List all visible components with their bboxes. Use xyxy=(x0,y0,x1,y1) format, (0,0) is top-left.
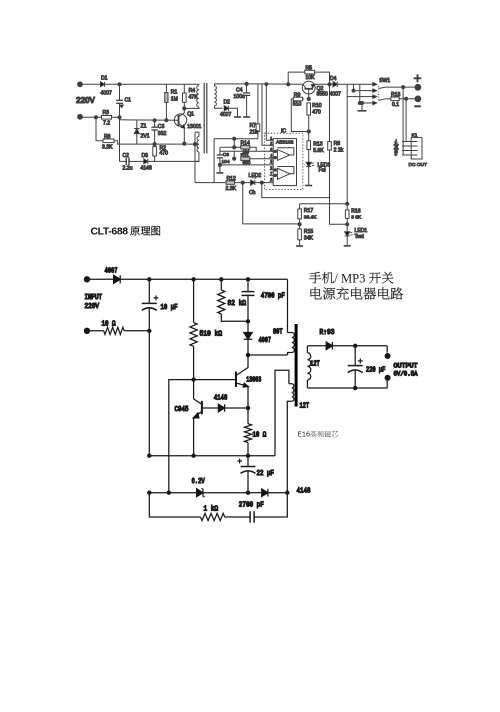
wire right side + terminal xyxy=(386,346,388,353)
wire bottom rail xyxy=(120,160,127,162)
resistor R4 xyxy=(183,84,185,93)
wire to + terminal xyxy=(386,86,416,88)
svg-text:Ful: Ful xyxy=(319,168,326,174)
svg-text:D1: D1 xyxy=(101,76,108,82)
svg-text:21k: 21k xyxy=(250,129,259,135)
wire D4 to switch xyxy=(337,83,353,85)
switch contact arrows xyxy=(373,83,377,86)
svg-text:12T: 12T xyxy=(310,360,320,368)
node R3/C1 junction xyxy=(118,116,121,119)
svg-text:4148: 4148 xyxy=(214,394,228,402)
op-amp IC U1 AE3102 outer dashed box xyxy=(265,133,303,189)
svg-text:R1: R1 xyxy=(171,90,178,96)
svg-text:2.2u: 2.2u xyxy=(123,166,133,172)
capacitor 22uF xyxy=(247,456,249,467)
diode D2 xyxy=(224,106,228,111)
node xyxy=(286,491,289,494)
svg-text:6V/0.5A: 6V/0.5A xyxy=(394,371,418,378)
wire zener column corner xyxy=(169,380,194,493)
resistor R13 xyxy=(307,141,311,150)
node 220uF top xyxy=(354,344,357,347)
ground after D2 xyxy=(228,108,237,117)
svg-text:LED2: LED2 xyxy=(249,173,262,179)
svg-text:2: 2 xyxy=(270,142,272,146)
svg-text:CLT-688: CLT-688 xyxy=(91,227,129,238)
svg-text:4: 4 xyxy=(270,154,272,158)
wire left column down xyxy=(148,331,150,456)
svg-text:R10: R10 xyxy=(312,103,322,109)
svg-text:22 μF: 22 μF xyxy=(257,470,275,478)
capacitor C4 xyxy=(246,84,248,93)
svg-text:C945: C945 xyxy=(175,406,189,414)
svg-text:SW1: SW1 xyxy=(379,78,390,84)
node xyxy=(148,278,151,281)
svg-text:220V: 220V xyxy=(76,95,95,105)
resistor R16 xyxy=(345,210,349,219)
switch poles xyxy=(379,87,386,88)
wire to 80T bottom xyxy=(248,354,288,356)
wire top rail xyxy=(120,278,287,280)
svg-text:4007: 4007 xyxy=(220,112,231,118)
svg-text:8: 8 xyxy=(270,177,272,181)
node junction R3/R6 xyxy=(94,116,97,119)
op-amp U1B xyxy=(277,168,289,179)
transformer T2 winding 12T secondary xyxy=(307,353,310,380)
wire C1 line down to bottom rail xyxy=(119,117,121,161)
node 220uF bottom xyxy=(354,386,357,389)
svg-text:470: 470 xyxy=(160,151,169,157)
svg-text:Z1: Z1 xyxy=(141,124,147,130)
svg-text:10 Ω: 10 Ω xyxy=(253,431,267,439)
capacitor C 10uF xyxy=(148,279,150,303)
wire xyxy=(80,83,101,85)
svg-text:R4: R4 xyxy=(189,88,196,94)
node 82k top xyxy=(220,278,223,281)
transformer T2 winding 12T feedback xyxy=(275,370,289,455)
wire - to connector xyxy=(405,99,407,142)
node C3/R2 junction xyxy=(153,143,156,146)
svg-text:Q1: Q1 xyxy=(187,112,194,118)
svg-text:DC OUT: DC OUT xyxy=(409,162,427,168)
transformer T1 core xyxy=(203,83,205,154)
diode D5 4007 xyxy=(114,275,121,283)
svg-text:4007: 4007 xyxy=(101,91,112,97)
resistor 82k xyxy=(220,279,222,290)
node AC input terminal bottom xyxy=(78,114,83,119)
node base junction xyxy=(192,378,195,381)
svg-text:R17: R17 xyxy=(304,208,314,214)
svg-text:/ MP3: / MP3 xyxy=(334,272,365,286)
node Q1 emitter junction xyxy=(183,142,186,145)
resistor R8 2.2k xyxy=(329,84,331,141)
svg-text:332: 332 xyxy=(158,131,167,137)
svg-text:OUTPUT: OUTPUT xyxy=(394,362,418,369)
wire to primary winding bottom xyxy=(184,107,199,109)
svg-text:4148: 4148 xyxy=(297,487,311,495)
wire output top rail xyxy=(307,345,326,347)
wire right column from switch xyxy=(346,84,348,210)
LED1 xyxy=(345,232,350,236)
capacitor 4700pF xyxy=(247,279,249,291)
svg-text:2V1: 2V1 xyxy=(141,134,150,140)
resistor R1 xyxy=(165,84,167,92)
switch linkage dashed xyxy=(378,86,380,102)
svg-text:4007: 4007 xyxy=(330,91,341,97)
transistor Q C945 xyxy=(201,401,203,414)
transistor Q2 8550 xyxy=(302,81,315,94)
resistor R17 xyxy=(299,204,301,209)
resistor R14 xyxy=(233,139,235,148)
svg-text:INPUT: INPUT xyxy=(85,294,103,302)
svg-text:R9: R9 xyxy=(294,93,301,99)
wire R17/R16 top row xyxy=(300,203,348,205)
svg-text:470: 470 xyxy=(312,109,321,115)
svg-text:C3: C3 xyxy=(158,124,165,130)
svg-text:R16: R16 xyxy=(351,209,361,215)
svg-text:3.3K: 3.3K xyxy=(102,145,113,151)
svg-text:C2: C2 xyxy=(123,153,130,159)
node xyxy=(148,329,151,332)
wire xyxy=(124,330,149,332)
wire bus pin3 xyxy=(220,150,273,152)
resistor 1k xyxy=(201,513,225,520)
label title line 1 xyxy=(309,272,321,283)
svg-text:10 Ω: 10 Ω xyxy=(102,320,116,328)
svg-text:10K: 10K xyxy=(306,75,316,81)
svg-text:10 μF: 10 μF xyxy=(161,304,178,312)
label title line 2 xyxy=(311,287,322,299)
svg-text:5.6K: 5.6K xyxy=(313,148,324,154)
svg-text:2.3K: 2.3K xyxy=(226,186,237,192)
node R1/Q1-base junction xyxy=(165,119,168,122)
svg-text:D3: D3 xyxy=(142,153,149,159)
op-amp output wires xyxy=(277,148,294,155)
wire R9 left down to R13 row xyxy=(291,99,308,132)
svg-text:+B(M)+-: +B(M)+- xyxy=(394,139,399,156)
wire + to connector xyxy=(402,87,404,155)
svg-text:IC: IC xyxy=(281,129,286,135)
svg-text:7: 7 xyxy=(270,172,272,176)
resistor 10 ohm emitter xyxy=(247,408,249,424)
capacitor 2700pF xyxy=(249,511,251,522)
diode 4148 right xyxy=(262,489,268,497)
transistor Q1 13001 xyxy=(174,114,186,126)
capacitor C6 xyxy=(219,147,221,155)
svg-text:1: 1 xyxy=(270,136,272,140)
svg-text:3 6K: 3 6K xyxy=(351,215,362,221)
node D1/C1 junction xyxy=(118,83,121,86)
wire bus pin5 xyxy=(220,164,273,166)
resistor 510k xyxy=(193,279,195,322)
svg-text:R13: R13 xyxy=(313,142,323,148)
resistor R15 xyxy=(298,229,302,240)
transformer T1 feedback winding xyxy=(195,132,199,136)
node R17/R15 junction xyxy=(298,223,301,226)
svg-text:4007: 4007 xyxy=(105,268,118,276)
wire zener row xyxy=(149,492,197,494)
svg-text:6.2V: 6.2V xyxy=(192,478,206,486)
op-amp U1A xyxy=(277,150,289,161)
svg-text:4700 pF: 4700 pF xyxy=(261,293,285,301)
svg-text:R7: R7 xyxy=(250,123,257,129)
node 510k top xyxy=(192,278,195,281)
svg-text:Ch: Ch xyxy=(249,190,256,196)
resistor R5 xyxy=(288,72,305,84)
svg-text:AE3102: AE3102 xyxy=(276,140,294,146)
zener Z1 xyxy=(136,120,138,128)
resistor R9 xyxy=(293,98,304,100)
svg-text:0.1: 0.1 xyxy=(392,102,399,108)
capacitor C1 xyxy=(119,84,121,100)
svg-text:80T: 80T xyxy=(273,328,283,336)
zener 6.2V xyxy=(197,489,203,497)
svg-text:D4: D4 xyxy=(330,76,337,82)
svg-text:D2: D2 xyxy=(224,100,231,106)
resistor R2 xyxy=(154,144,156,147)
wire rail to IC pin1 xyxy=(266,84,273,140)
wire LED2 branch down xyxy=(262,183,330,198)
svg-text:12T: 12T xyxy=(300,402,310,410)
transformer T2 winding 80T xyxy=(292,333,295,353)
svg-text:510: 510 xyxy=(293,101,302,107)
wire base row xyxy=(194,379,236,381)
transformer T1 secondary winding xyxy=(214,86,216,106)
svg-text:2 2k: 2 2k xyxy=(334,147,344,153)
svg-text:5: 5 xyxy=(270,160,272,164)
svg-text:C4: C4 xyxy=(236,88,243,94)
diode D3 xyxy=(144,159,148,164)
svg-text:1 kΩ: 1 kΩ xyxy=(204,506,219,514)
capacitor C3 xyxy=(153,119,156,122)
svg-text:220V: 220V xyxy=(85,303,100,311)
wire to R6 xyxy=(96,117,103,141)
svg-text:510 kΩ: 510 kΩ xyxy=(200,331,223,339)
diode R+93 xyxy=(326,342,332,350)
node 82k/4700p junction xyxy=(246,320,249,323)
IC pin stubs left xyxy=(269,139,273,141)
svg-text:4007: 4007 xyxy=(259,337,272,345)
diode 4148 horizontal xyxy=(218,404,224,412)
ground switch xyxy=(361,103,363,111)
transformer T1 primary winding xyxy=(197,86,199,108)
wire top rail left xyxy=(105,83,200,85)
diode D4 xyxy=(333,82,337,87)
node 22uF bottom xyxy=(246,491,249,494)
svg-text:82 kΩ: 82 kΩ xyxy=(228,300,247,308)
wire left column to bottom row xyxy=(149,493,200,517)
svg-text:7.2: 7.2 xyxy=(103,121,110,127)
diode D1 xyxy=(101,82,105,87)
wire C945 base row xyxy=(202,407,219,409)
svg-text:6: 6 xyxy=(270,166,272,170)
node 4700pF top xyxy=(246,278,249,281)
svg-text:13003: 13003 xyxy=(246,376,261,384)
node output terminal - xyxy=(385,375,390,380)
op-amp IC U1 AE3102 box xyxy=(273,139,296,186)
transistor Q 13003 xyxy=(235,372,237,388)
node R16/LED1 junction xyxy=(346,223,349,226)
node R4/Q1-collector junction xyxy=(183,107,186,110)
node input terminal bottom xyxy=(84,328,89,333)
wire LED2-col to junction row xyxy=(243,183,300,224)
node emitter/4148 junction xyxy=(246,406,249,409)
node AC input terminal top xyxy=(78,82,83,87)
node output terminal + xyxy=(385,354,390,359)
diode 4007 vertical xyxy=(244,333,252,340)
svg-text:R15: R15 xyxy=(304,229,314,235)
wire top rail corner to 80T top xyxy=(287,279,289,332)
wire output bottom rail xyxy=(307,387,387,389)
wire emitter rail xyxy=(149,455,275,457)
svg-text:E16: E16 xyxy=(298,432,311,440)
capacitor C2 xyxy=(125,158,127,165)
svg-text:C6: C6 xyxy=(223,152,229,158)
node output + xyxy=(415,84,421,90)
svg-text:13001: 13001 xyxy=(187,124,201,130)
resistor R18 xyxy=(386,98,391,100)
svg-text:R5: R5 xyxy=(306,65,313,71)
wire R6 to mid rail xyxy=(114,141,195,144)
resistor R7 xyxy=(257,84,259,124)
wire xyxy=(80,116,102,118)
wire box top xyxy=(214,138,258,140)
svg-text:R18: R18 xyxy=(391,92,401,98)
svg-text:34K: 34K xyxy=(304,235,314,241)
svg-text:39.4K: 39.4K xyxy=(304,214,317,220)
svg-text:100u: 100u xyxy=(234,94,245,100)
svg-text:R↑93: R↑93 xyxy=(320,329,335,337)
svg-text:Test: Test xyxy=(355,234,365,240)
wire R3 to Q1 base row xyxy=(112,116,120,118)
svg-text:104: 104 xyxy=(222,159,230,165)
wire R12 row xyxy=(195,182,226,184)
svg-text:8550: 8550 xyxy=(317,91,328,97)
node R9/Q2 junction xyxy=(307,97,310,100)
svg-text:R14: R14 xyxy=(241,140,251,146)
transformer T2 core bar xyxy=(295,324,298,407)
wire rail branch pin2 xyxy=(262,84,273,145)
svg-text:R12: R12 xyxy=(227,176,237,182)
svg-text:R6: R6 xyxy=(104,134,111,140)
wire xyxy=(87,278,114,280)
svg-text:1M: 1M xyxy=(171,96,178,102)
LED2 xyxy=(251,180,255,185)
svg-text:2700 pF: 2700 pF xyxy=(239,501,264,509)
svg-text:R8: R8 xyxy=(334,141,341,147)
wire xyxy=(87,330,104,332)
ground C6 xyxy=(216,172,223,174)
wire top rail right xyxy=(258,83,303,85)
wire feedback column xyxy=(194,132,196,183)
IC pin dots xyxy=(274,150,276,152)
capacitor 220uF xyxy=(354,346,356,366)
resistor R10 xyxy=(307,103,311,115)
node output - xyxy=(415,96,421,102)
resistor 10 ohm input xyxy=(104,327,125,334)
resistor R6 xyxy=(103,139,114,143)
wire box left xyxy=(213,139,215,183)
resistor R3 xyxy=(102,116,112,120)
svg-text:R3: R3 xyxy=(103,110,110,116)
resistor R12 xyxy=(226,181,235,184)
node collector junction xyxy=(246,353,249,356)
node input terminal top xyxy=(84,277,89,282)
LED3 xyxy=(306,162,311,166)
svg-text:4148: 4148 xyxy=(141,166,152,172)
svg-text:C1: C1 xyxy=(125,98,132,104)
svg-text:220 μF: 220 μF xyxy=(366,366,385,374)
